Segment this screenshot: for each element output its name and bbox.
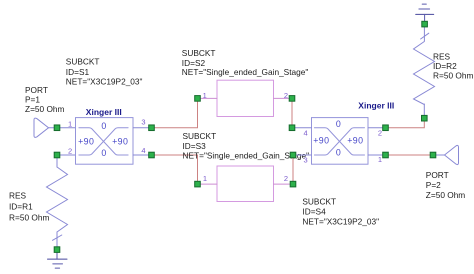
- svg-text:1: 1: [203, 174, 207, 183]
- svg-text:SUBCKT: SUBCKT: [182, 48, 216, 58]
- svg-text:Xinger III: Xinger III: [358, 100, 394, 110]
- node S3.1: [195, 181, 201, 187]
- svg-text:ID=S3: ID=S3: [183, 141, 207, 151]
- wire U2 pin1 to port P2: [388, 154, 430, 156]
- svg-text:P=2: P=2: [426, 180, 441, 190]
- svg-text:+90: +90: [112, 136, 128, 146]
- port P2 symbol: [436, 145, 459, 164]
- port P2 label: [426, 170, 466, 200]
- node U2.4: [289, 125, 295, 131]
- subckt S1 label: [66, 57, 143, 87]
- wire S3 output up to U2 pin3: [292, 158, 294, 182]
- svg-text:PORT: PORT: [426, 170, 449, 180]
- node U1.4: [149, 152, 155, 158]
- node U2.1: [383, 152, 389, 158]
- subckt S3 box: [200, 166, 290, 202]
- U1 pin numbers: [68, 118, 145, 156]
- svg-text:3: 3: [141, 118, 145, 127]
- wire S2 output down to U2 pin4: [291, 101, 293, 125]
- node S2.1: [195, 96, 201, 102]
- node U2.3: [290, 152, 296, 158]
- node U1.2-R1: [54, 152, 60, 158]
- svg-text:2: 2: [378, 129, 382, 138]
- U2 pin3 stub: [296, 154, 312, 156]
- node port1-U1.1: [54, 125, 60, 131]
- svg-text:4: 4: [141, 146, 145, 155]
- wire port1 to U1 pin1: [60, 127, 76, 129]
- svg-text:+90: +90: [347, 136, 363, 146]
- resistor R1 label: [9, 191, 49, 223]
- node wire-port2: [430, 152, 436, 158]
- svg-text:0: 0: [336, 119, 341, 129]
- U2 pin4 stub: [295, 127, 312, 129]
- svg-text:SUBCKT: SUBCKT: [183, 131, 217, 141]
- node R2-wire: [422, 115, 428, 121]
- svg-text:RES: RES: [433, 52, 451, 62]
- node R1-ground: [54, 247, 60, 253]
- svg-text:2: 2: [68, 146, 72, 155]
- svg-text:R=50 Ohm: R=50 Ohm: [9, 213, 49, 223]
- svg-text:Z=50 Ohm: Z=50 Ohm: [426, 190, 466, 200]
- ground above R2: [416, 4, 434, 21]
- wire R2 to U2 pin2: [388, 121, 424, 128]
- svg-text:ID=R1: ID=R1: [9, 202, 33, 212]
- U1 pin3 stub: [133, 127, 149, 129]
- subckt S3 label: [183, 131, 310, 161]
- svg-text:0: 0: [336, 148, 341, 158]
- svg-text:Xinger III: Xinger III: [86, 107, 122, 117]
- svg-text:ID=S4: ID=S4: [302, 206, 326, 216]
- svg-text:3: 3: [304, 156, 308, 165]
- svg-text:PORT: PORT: [25, 85, 48, 95]
- node ground-R2: [422, 21, 428, 27]
- resistor R2: [414, 27, 435, 116]
- svg-text:NET="X3C19P2_03": NET="X3C19P2_03": [302, 216, 379, 226]
- wire U1 pin2 stub: [60, 154, 76, 156]
- U1 inner labels: [78, 121, 128, 158]
- svg-text:2: 2: [284, 91, 288, 100]
- svg-text:+90: +90: [78, 136, 94, 146]
- subckt S4 label: [302, 197, 379, 227]
- svg-text:1: 1: [68, 119, 72, 128]
- ground below R1: [48, 252, 68, 268]
- svg-text:ID=R2: ID=R2: [433, 61, 457, 71]
- svg-text:2: 2: [284, 174, 288, 183]
- svg-text:0: 0: [101, 121, 106, 131]
- svg-text:RES: RES: [9, 191, 27, 201]
- node S2.2: [289, 96, 295, 102]
- hybrid coupler U2 box: [312, 118, 369, 165]
- hybrid coupler U1 box: [76, 118, 134, 165]
- svg-text:SUBCKT: SUBCKT: [302, 197, 336, 207]
- subckt S2 label: [182, 48, 309, 77]
- svg-text:P=1: P=1: [25, 94, 40, 104]
- svg-text:0: 0: [101, 148, 106, 158]
- svg-text:1: 1: [203, 91, 207, 100]
- svg-text:NET="Single_ended_Gain_Stage": NET="Single_ended_Gain_Stage": [182, 67, 309, 77]
- U2 inner labels: [313, 119, 363, 158]
- svg-text:4: 4: [304, 129, 308, 138]
- port P1 label: [25, 85, 65, 114]
- wire U1 pin3 to S2 input: [154, 101, 197, 128]
- svg-text:1: 1: [378, 155, 382, 164]
- U2 pin1 stub: [368, 154, 383, 156]
- resistor R2 label: [433, 52, 473, 81]
- svg-text:+90: +90: [313, 136, 329, 146]
- svg-text:SUBCKT: SUBCKT: [66, 57, 100, 67]
- svg-text:R=50 Ohm: R=50 Ohm: [433, 71, 473, 81]
- node U2.2: [383, 125, 389, 131]
- S2 pin numbers: [203, 91, 288, 100]
- node S3.2: [290, 181, 296, 187]
- U2 pin numbers: [304, 129, 382, 165]
- resistor R1: [47, 158, 68, 247]
- U1 pin4 stub: [133, 154, 149, 156]
- subckt S2 box: [200, 80, 289, 116]
- U2 pin2 stub: [368, 127, 383, 129]
- svg-text:NET="X3C19P2_03": NET="X3C19P2_03": [66, 77, 143, 87]
- port P1 symbol: [34, 118, 55, 137]
- wire U1 pin4 to S3 input: [154, 155, 197, 181]
- S3 pin numbers: [203, 174, 288, 183]
- svg-text:Z=50 Ohm: Z=50 Ohm: [25, 104, 65, 114]
- node U1.3: [149, 125, 155, 131]
